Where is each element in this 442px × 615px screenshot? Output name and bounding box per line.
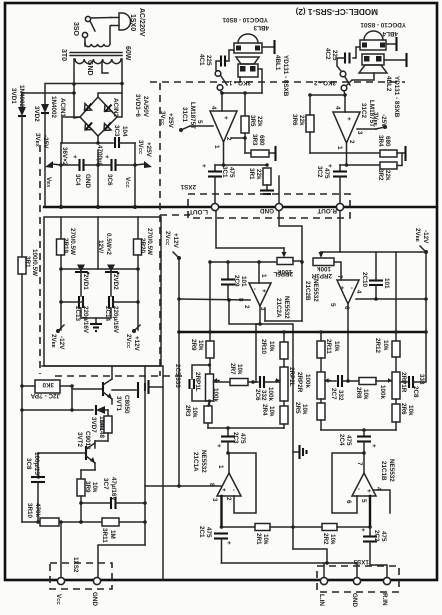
svg-text:2R9: 2R9 xyxy=(190,339,197,351)
resistor 2R20 xyxy=(134,239,142,330)
svg-text:100/0.5W: 100/0.5W xyxy=(31,249,38,276)
svg-text:-12V: -12V xyxy=(58,336,65,350)
label J2C-?PA xyxy=(30,392,60,399)
svg-text:21C1B: 21C1B xyxy=(380,461,387,481)
wire pot to pin7 xyxy=(334,262,341,280)
label 1XS3 xyxy=(353,558,369,565)
svg-text:3R4: 3R4 xyxy=(377,135,384,147)
connector 2XS1 dashed box xyxy=(188,194,350,218)
svg-text:101: 101 xyxy=(383,278,390,289)
svg-text:+: + xyxy=(71,155,78,159)
svg-text:332: 332 xyxy=(260,390,267,401)
svg-text:10k: 10k xyxy=(362,389,369,400)
svg-text:680: 680 xyxy=(384,136,391,147)
label 2C9 101 xyxy=(233,275,247,287)
label 3VT1 C8050 xyxy=(115,395,130,414)
dashed amp boundary top xyxy=(150,81,405,83)
GND riser 1XS3 xyxy=(356,563,358,577)
svg-text:60W: 60W xyxy=(124,46,131,61)
label 3R2 22k xyxy=(377,169,391,181)
label 3R5 22k xyxy=(249,115,263,127)
label 4BL4 xyxy=(382,30,398,37)
svg-text:220µ/16V: 220µ/16V xyxy=(82,306,89,334)
svg-text:+25V: +25V xyxy=(145,142,152,158)
bottom wire y522 xyxy=(22,520,145,524)
label 3R1 22k xyxy=(248,168,262,180)
svg-text:10k: 10k xyxy=(191,407,198,418)
svg-text:3R3: 3R3 xyxy=(251,134,258,146)
svg-text:100k: 100k xyxy=(304,374,311,389)
secondary left wire xyxy=(72,59,80,118)
svg-text:3VCC: 3VCC xyxy=(137,140,144,155)
svg-text:C8050: C8050 xyxy=(123,395,130,414)
AC plug 1SX0 xyxy=(111,13,131,30)
svg-text:-25V: -25V xyxy=(380,114,387,128)
label 3R6 22k xyxy=(291,114,305,126)
resistor 2R7 xyxy=(214,379,257,386)
svg-text:3VEE: 3VEE xyxy=(372,112,379,126)
wire pin4 power right xyxy=(356,297,428,301)
relay coil 3K0 xyxy=(22,380,74,393)
label 3R11 1M xyxy=(101,528,116,543)
svg-text:47µ/16V: 47µ/16V xyxy=(110,477,117,501)
right tweeter YDGC10-8S01 xyxy=(360,31,386,50)
preamp bus y332 xyxy=(179,330,428,334)
svg-text:3VCC: 3VCC xyxy=(159,111,166,126)
label 2C8 333 xyxy=(412,374,425,398)
resistor 2R1 xyxy=(222,524,295,531)
label 31C1 LM1875T xyxy=(181,102,196,129)
svg-text:3: 3 xyxy=(356,131,363,135)
svg-text:10k: 10k xyxy=(301,404,308,415)
svg-text:2R11: 2R11 xyxy=(325,339,332,354)
svg-text:4BL3: 4BL3 xyxy=(253,24,269,31)
svg-text:3C3: 3C3 xyxy=(113,125,120,137)
svg-text:36V×2: 36V×2 xyxy=(61,147,68,166)
GND feed wire xyxy=(278,176,280,203)
svg-text:2R12: 2R12 xyxy=(374,338,381,354)
svg-text:2C13: 2C13 xyxy=(74,306,81,322)
terminal Vcc xyxy=(55,577,65,605)
label 2R11 10k xyxy=(325,339,340,354)
svg-text:10k: 10k xyxy=(98,420,105,431)
svg-text:470k: 470k xyxy=(34,503,41,518)
svg-text:3C7: 3C7 xyxy=(102,478,109,490)
svg-text:+: + xyxy=(345,117,352,121)
resistor 2R9 xyxy=(206,332,214,374)
svg-text:+12V: +12V xyxy=(133,336,140,352)
label 2R3 10k xyxy=(184,405,198,418)
pin4 stub 21C1B xyxy=(374,490,390,513)
svg-text:22k: 22k xyxy=(255,169,262,180)
svg-text:270/0.5W: 270/0.5W xyxy=(146,228,153,255)
svg-text:2C7: 2C7 xyxy=(330,388,337,400)
secondary right wire xyxy=(117,59,124,117)
label 2R4 10k xyxy=(261,404,275,417)
pin1 stub 21C2A xyxy=(257,260,261,283)
wire node to diodes xyxy=(22,91,76,95)
svg-text:VCC: VCC xyxy=(124,177,131,188)
svg-text:12V/: 12V/ xyxy=(97,240,104,253)
resistor 2R12 xyxy=(392,252,400,372)
potentiometer 2RP1R xyxy=(388,372,400,404)
zener 2VD2 xyxy=(105,265,119,297)
svg-text:21C2B: 21C2B xyxy=(304,281,311,301)
input riser right xyxy=(369,496,371,527)
svg-text:AC/220V: AC/220V xyxy=(138,8,145,37)
svg-text:+: + xyxy=(200,164,207,168)
power flag 3Vcc +25V amp xyxy=(159,111,174,129)
svg-text:2RP2L: 2RP2L xyxy=(288,367,295,387)
right woofer ground T xyxy=(384,53,407,67)
resistor 2R11 xyxy=(317,332,325,372)
ground drop x292 xyxy=(292,324,294,549)
svg-text:104: 104 xyxy=(121,126,128,137)
transformer core xyxy=(70,53,122,56)
pin8 stub 21C1A xyxy=(145,484,221,488)
label 2R10 10k xyxy=(260,339,275,355)
label 4BL2 YD131-8SXB xyxy=(385,76,400,118)
label 2R12 10k xyxy=(374,338,389,354)
label 31C2 LM1875T xyxy=(360,100,375,127)
switch 3SO xyxy=(82,16,95,37)
power flag 3Vex -25V xyxy=(34,133,61,168)
svg-text:3K0: 3K0 xyxy=(42,381,54,388)
svg-text:2C4: 2C4 xyxy=(338,434,345,446)
label 2VD1 xyxy=(82,274,89,290)
svg-text:31C2: 31C2 xyxy=(360,103,367,119)
svg-text:4C1: 4C1 xyxy=(198,54,205,66)
resistor 3R10 xyxy=(40,518,59,526)
op-amp 21C1A xyxy=(208,453,241,502)
svg-text:10k: 10k xyxy=(268,406,275,417)
svg-text:YDGC10 - 8S01: YDGC10 - 8S01 xyxy=(360,21,406,28)
svg-text:2R1: 2R1 xyxy=(255,533,262,545)
svg-text:+: + xyxy=(370,444,377,448)
svg-text:L.OUT: L.OUT xyxy=(189,208,208,215)
wire pot to pin3 xyxy=(265,261,302,321)
label 3C2 475 xyxy=(316,166,330,179)
svg-text:100k: 100k xyxy=(212,388,219,403)
label 21C2A NE5532 xyxy=(275,296,290,319)
capacitor 2C14 xyxy=(109,296,140,308)
svg-text:22k: 22k xyxy=(298,115,305,126)
svg-text:1SX0: 1SX0 xyxy=(129,14,136,31)
label 2C3 475 xyxy=(232,432,246,444)
svg-text:3R6: 3R6 xyxy=(291,114,298,126)
label 2R1 10k xyxy=(255,533,269,545)
op-amp 21C2B xyxy=(329,275,362,310)
svg-text:2C5 333: 2C5 333 xyxy=(174,364,181,388)
transistor 3VT1 C8050 xyxy=(103,366,112,404)
svg-text:3T0: 3T0 xyxy=(60,49,67,61)
label 2RP1L 100k xyxy=(194,372,219,403)
label 2R20 270/0.5W xyxy=(139,228,153,255)
svg-text:2R4: 2R4 xyxy=(261,404,268,416)
wire switch to primary xyxy=(84,38,86,46)
svg-text:1: 1 xyxy=(260,274,267,278)
label ACIN2 xyxy=(112,98,119,117)
label 3KO-2 xyxy=(313,79,336,86)
svg-text:10k: 10k xyxy=(197,340,204,351)
svg-text:2C14: 2C14 xyxy=(104,306,111,322)
svg-text:475: 475 xyxy=(239,433,246,444)
input node wire y165 xyxy=(215,163,269,167)
label 2R8 10k xyxy=(355,387,369,400)
svg-text:2: 2 xyxy=(225,497,232,501)
svg-text:2VEE: 2VEE xyxy=(50,334,57,348)
op-amp 21C1B xyxy=(345,453,382,504)
svg-text:4: 4 xyxy=(334,106,341,110)
label Vex Vcc xyxy=(45,177,131,188)
svg-text:-25V: -25V xyxy=(42,135,49,149)
resistor 3R9 xyxy=(77,479,85,524)
label 3VT2 C9013 xyxy=(76,431,91,450)
wire relay node down xyxy=(70,386,74,412)
connector 1XS3 dashed box xyxy=(317,566,399,592)
resistor 3R1 xyxy=(18,257,26,274)
svg-text:3C1: 3C1 xyxy=(221,166,228,178)
svg-text:+: + xyxy=(103,155,110,159)
label 21C1B NE5532 xyxy=(380,459,395,482)
potentiometer 2RP5L xyxy=(277,248,293,265)
wire bridge bottom xyxy=(61,136,113,145)
power flag 2Vee -12V xyxy=(50,325,65,350)
svg-text:+: + xyxy=(359,528,366,532)
svg-text:475: 475 xyxy=(323,168,330,179)
svg-text:3VD2: 3VD2 xyxy=(33,106,40,122)
svg-text:+25V: +25V xyxy=(167,113,174,129)
svg-text:225: 225 xyxy=(205,55,212,66)
label 1XS2 xyxy=(72,557,79,573)
svg-text:3: 3 xyxy=(211,498,218,502)
svg-text:1XS3: 1XS3 xyxy=(353,558,369,565)
svg-text:7: 7 xyxy=(356,462,363,466)
svg-text:YD131 - 8SXB: YD131 - 8SXB xyxy=(282,55,289,97)
svg-text:2R7: 2R7 xyxy=(229,363,236,375)
label 2R9 10k xyxy=(190,339,204,351)
label 3R1 100/0.5W xyxy=(24,249,38,276)
terminal R.IN xyxy=(381,577,391,606)
label 3VD7 1N4148 xyxy=(90,416,105,439)
svg-text:100k: 100k xyxy=(267,387,274,402)
svg-text:L.IN: L.IN xyxy=(318,594,325,606)
svg-text:R.IN: R.IN xyxy=(381,593,388,606)
label 3R4 680 xyxy=(377,135,391,147)
left speaker tweeter YDGC10-8S01 xyxy=(234,34,262,53)
capacitor 2C7 xyxy=(325,375,359,387)
svg-text:3C6: 3C6 xyxy=(106,174,113,186)
svg-text:NE5532: NE5532 xyxy=(388,459,395,482)
sub-supply box xyxy=(44,217,161,366)
label 3VD1 xyxy=(10,85,25,108)
wire base 3VT1 xyxy=(72,388,102,390)
svg-text:225: 225 xyxy=(331,50,338,61)
power flag 3Vcc +25V xyxy=(135,140,152,168)
svg-text:1M: 1M xyxy=(109,530,116,539)
svg-text:475: 475 xyxy=(380,531,387,542)
svg-text:3SO: 3SO xyxy=(72,22,79,37)
svg-text:2C8: 2C8 xyxy=(412,386,419,398)
svg-text:2R20: 2R20 xyxy=(139,238,146,254)
pin3 stub 21C2A xyxy=(264,308,266,321)
capacitor 3C1 xyxy=(200,164,222,203)
svg-text:5: 5 xyxy=(329,303,336,307)
capacitor 3C6 xyxy=(103,155,116,171)
resistor 2R4 xyxy=(280,406,288,428)
label 3VD3~6 2A/50V xyxy=(134,94,149,118)
label 2C7 332 xyxy=(330,388,344,401)
svg-text:100µ/25V: 100µ/25V xyxy=(33,452,40,480)
capacitor 3C4 xyxy=(71,155,84,171)
L.IN riser xyxy=(323,563,325,577)
svg-text:3R1: 3R1 xyxy=(248,168,255,180)
center tap hook xyxy=(102,62,108,73)
svg-text:1: 1 xyxy=(336,146,343,150)
svg-text:GND: GND xyxy=(351,593,358,607)
emitter network wire xyxy=(81,470,95,479)
svg-text:10k: 10k xyxy=(382,340,389,351)
dashed preamp boundary xyxy=(160,83,190,376)
feedback box 21C1B xyxy=(332,451,366,513)
svg-text:1N4002: 1N4002 xyxy=(50,96,57,119)
terminal GND xyxy=(91,577,101,606)
wire right secondary to bridge xyxy=(98,93,122,97)
label 3C7 47u/16V xyxy=(102,477,117,501)
transistor 3VT2 C9013 xyxy=(38,443,95,470)
svg-text:4: 4 xyxy=(355,290,362,294)
ground symbol left xyxy=(145,380,163,394)
svg-text:3R10: 3R10 xyxy=(26,503,33,519)
power flag 3Vee -25V xyxy=(372,112,387,128)
capacitor 4C1 xyxy=(216,50,234,70)
+12V rail down xyxy=(177,258,181,486)
input node wire right xyxy=(340,164,380,166)
svg-text:1N4002: 1N4002 xyxy=(18,85,25,108)
svg-text:3VD3~6: 3VD3~6 xyxy=(134,94,141,117)
capacitor 2C8 xyxy=(400,332,426,388)
svg-text:3VT1: 3VT1 xyxy=(115,396,122,412)
label 21C1A NE5532 xyxy=(192,450,207,473)
svg-text:3VEX: 3VEX xyxy=(34,133,41,147)
svg-text:10k: 10k xyxy=(262,534,269,545)
21C2A output xyxy=(256,306,262,381)
svg-text:22k: 22k xyxy=(256,116,263,127)
apex wire right xyxy=(345,143,349,167)
tweeter ground T xyxy=(262,40,275,54)
potentiometer 2RP2R xyxy=(317,372,330,403)
pin5 power stub xyxy=(179,126,213,132)
svg-text:680: 680 xyxy=(258,135,265,146)
resistor 2R19 xyxy=(57,239,65,330)
svg-text:2A/50V: 2A/50V xyxy=(142,96,149,118)
svg-text:220µ/16V: 220µ/16V xyxy=(112,306,119,334)
terminal GND2 xyxy=(260,203,283,214)
feedback wire y153 xyxy=(310,152,380,154)
svg-text:+: + xyxy=(225,541,232,545)
svg-text:2VCC: 2VCC xyxy=(164,231,171,246)
wire y410 with diode 3VD7 xyxy=(22,409,108,411)
svg-text:6: 6 xyxy=(343,306,350,310)
potentiometer 2RP2L xyxy=(276,367,288,406)
connector 1XS2 dashed box xyxy=(50,563,112,589)
pin8 power line xyxy=(179,299,250,300)
wire left rail down xyxy=(20,274,24,522)
pin8 drop x229 xyxy=(227,298,292,324)
bottom wire y563 xyxy=(222,561,358,565)
svg-text:-12V: -12V xyxy=(422,230,429,244)
output node right amp xyxy=(308,91,347,112)
label 100k 2RP5L xyxy=(273,268,293,277)
svg-text:1: 1 xyxy=(213,145,220,149)
label 2C5 333 xyxy=(174,364,181,388)
svg-text:475: 475 xyxy=(345,435,352,446)
feed vertical x210 xyxy=(208,262,212,334)
svg-text:10k: 10k xyxy=(329,534,336,545)
ground symbol box xyxy=(81,308,111,331)
svg-text:2C6: 2C6 xyxy=(254,389,261,401)
zener row wire xyxy=(59,267,140,271)
capacitor 2C3 xyxy=(215,428,235,453)
svg-text:1: 1 xyxy=(217,465,224,469)
label 2C2 475 xyxy=(373,530,387,542)
resistor 3R3 xyxy=(245,146,276,161)
svg-text:ACIN1: ACIN1 xyxy=(59,98,66,117)
capacitor 3C3 xyxy=(115,137,135,148)
svg-text:-: - xyxy=(251,288,258,290)
rail -12V down xyxy=(425,252,427,332)
label 3R10 470k xyxy=(26,503,41,519)
svg-text:2C2: 2C2 xyxy=(373,530,380,542)
svg-text:31C1: 31C1 xyxy=(181,107,188,123)
filter node wire xyxy=(59,163,137,167)
svg-text:100k: 100k xyxy=(379,385,386,400)
rail drops into box xyxy=(61,217,138,269)
label 2VD2 xyxy=(112,274,119,290)
terminal R.OUT xyxy=(317,203,343,214)
capacitor 3C7 xyxy=(79,497,147,509)
switch 3KO-2 xyxy=(340,71,350,91)
mid riser x295 xyxy=(293,549,327,563)
left woofer 4BL1 xyxy=(236,57,259,77)
svg-text:3R11: 3R11 xyxy=(101,528,108,543)
label 3VD2 xyxy=(33,96,66,122)
pin3 power stub right xyxy=(357,125,387,129)
resistor 3R4 xyxy=(380,146,406,165)
capacitor 4C2 xyxy=(337,47,360,71)
capacitor 3C2 xyxy=(326,164,347,203)
label 12V/0.5Wx2 xyxy=(97,233,112,255)
power flag 2Vcc +12V preamp xyxy=(164,231,181,260)
svg-text:2RP3R: 2RP3R xyxy=(311,272,332,279)
svg-text:+: + xyxy=(338,286,345,290)
svg-text:GND: GND xyxy=(84,174,91,188)
wire plug right to primary xyxy=(110,26,111,44)
dashed standby boundary xyxy=(55,375,186,377)
label 4C1 225 xyxy=(198,54,212,66)
svg-text:270/0.5W: 270/0.5W xyxy=(69,228,76,255)
svg-text:GND: GND xyxy=(260,207,274,214)
svg-text:332: 332 xyxy=(337,390,344,401)
svg-text:+: + xyxy=(220,488,227,492)
terminal L.OUT xyxy=(189,203,219,215)
pin2 stub xyxy=(231,136,247,140)
svg-text:10k: 10k xyxy=(333,341,340,352)
diode 3VD7 xyxy=(96,405,105,415)
svg-text:21C2A: 21C2A xyxy=(275,298,282,318)
svg-text:5: 5 xyxy=(196,120,203,124)
svg-text:3R2: 3R2 xyxy=(377,169,384,181)
